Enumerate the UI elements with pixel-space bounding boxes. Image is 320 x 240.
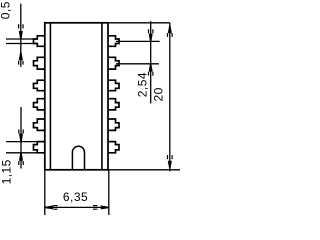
pin L2 (34, 57, 45, 69)
pin L5 (34, 119, 45, 130)
dimension 6,35 left arrow wings (53, 206, 57, 210)
dimension 0,5 extension line bottom (6, 43, 37, 45)
dimension 1,15 upper arrowhead (19, 134, 23, 142)
dimension 1,15 lower arrowhead (19, 153, 23, 161)
dimension 1,15 extension line top (6, 141, 37, 143)
pin R2 (108, 57, 119, 69)
body outline (45, 23, 108, 170)
pin R3 (108, 80, 119, 91)
svg-text:2,54: 2,54 (135, 72, 149, 97)
dimension 6,35 left arrowhead (45, 205, 53, 209)
dimension 1,15 upper arrow wings (19, 130, 23, 134)
dimension 2,54 upper arrow wings (149, 29, 153, 33)
pin R4 (108, 99, 119, 110)
dimension 2,54 lower arrow wings (149, 72, 153, 76)
dimension 2,54 upper arrowhead (149, 34, 153, 42)
dimension 6,35 right arrow wings (93, 206, 97, 210)
dimension 2,54 dimension line (150, 21, 152, 103)
dimension 6,35 right arrowhead (101, 205, 109, 209)
extension line from pin R2 (116, 63, 159, 65)
extension line from pin R1 (116, 40, 160, 42)
dimension 1,15 extension line bottom (6, 152, 45, 154)
dimension 20 lower arrowhead (168, 161, 172, 169)
dimension 20 lower arrow wings (168, 155, 173, 159)
dome index mark at body bottom (72, 146, 84, 170)
dimension 6,35 left extension line (44, 171, 46, 216)
dimension 20 upper arrow wings (168, 33, 173, 37)
pin R5 (108, 119, 119, 130)
dimension 0,5 upper arrowhead (19, 31, 23, 39)
pin L1 (34, 36, 45, 47)
dimension 6,35 dimension line (45, 206, 109, 208)
dimension 2,54 lower arrowhead (149, 64, 153, 72)
dimension 20 dimension line (169, 23, 171, 172)
dimension 0,5 extension line top (6, 38, 37, 40)
body inner line left (49, 23, 51, 170)
dimension 1,15 lower arrow wings (19, 161, 23, 165)
pin L4 (34, 99, 45, 110)
svg-text:20: 20 (152, 87, 166, 101)
body inner line right (101, 23, 103, 170)
bottom extension line to the right of body (109, 169, 180, 171)
pin R1 (108, 36, 119, 47)
pin L6 (34, 142, 45, 153)
dimension 1,15 dimension line (20, 107, 22, 169)
dimension 0,5 upper arrow wings (19, 24, 23, 28)
dimension 20 upper arrowhead (168, 26, 172, 33)
dimension 6,35 right extension line (108, 171, 110, 216)
dimension 0,5 lower arrow wings (19, 61, 23, 65)
svg-text:0,5: 0,5 (0, 1, 12, 19)
top extension line to the right of body (109, 22, 170, 24)
pin R6 (108, 142, 119, 153)
dimension 0,5 lower arrowhead (19, 52, 23, 60)
dimension 0,5 dimension line (20, 4, 22, 67)
svg-text:1,15: 1,15 (0, 159, 13, 184)
pin L3 (34, 80, 45, 91)
svg-text:6,35: 6,35 (63, 190, 88, 204)
